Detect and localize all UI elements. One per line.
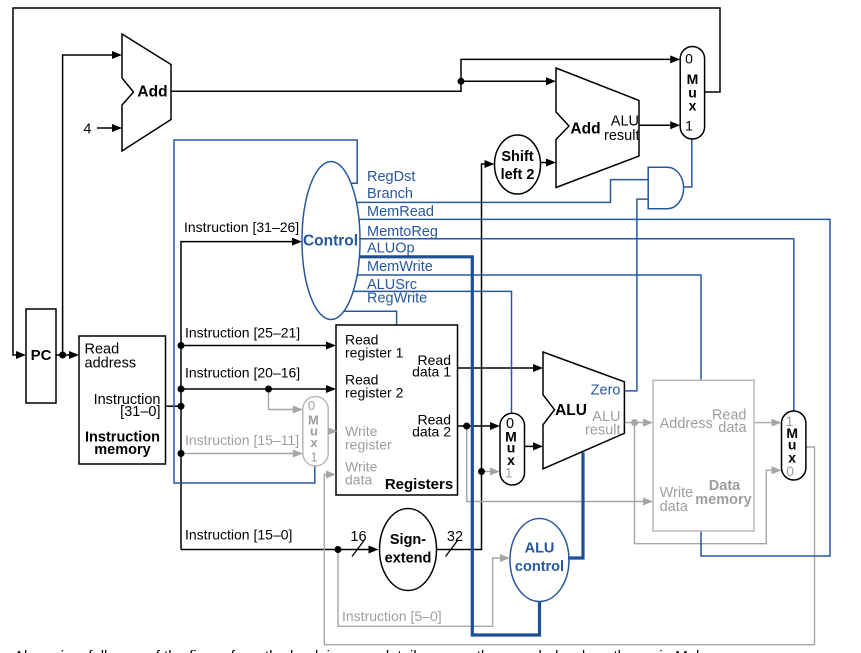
svg-text:Instruction [5–0]: Instruction [5–0] bbox=[342, 608, 442, 624]
svg-text:1: 1 bbox=[786, 413, 794, 429]
svg-text:Branch: Branch bbox=[367, 186, 413, 202]
svg-text:Instruction [20–16]: Instruction [20–16] bbox=[185, 365, 300, 381]
svg-text:16: 16 bbox=[350, 529, 366, 545]
svg-text:ALU: ALU bbox=[555, 402, 587, 419]
svg-text:Add: Add bbox=[570, 121, 600, 138]
svg-text:Registers: Registers bbox=[385, 476, 453, 493]
svg-text:MemRead: MemRead bbox=[367, 204, 434, 220]
svg-text:memory: memory bbox=[695, 492, 751, 508]
svg-text:1: 1 bbox=[310, 449, 317, 464]
svg-text:Instruction [25–21]: Instruction [25–21] bbox=[185, 325, 300, 341]
svg-text:data: data bbox=[345, 472, 372, 488]
svg-text:MemtoReg: MemtoReg bbox=[367, 224, 438, 240]
svg-text:ALUOp: ALUOp bbox=[367, 241, 415, 257]
svg-text:Instruction [31–26]: Instruction [31–26] bbox=[184, 219, 299, 235]
svg-text:register 1: register 1 bbox=[345, 345, 404, 361]
svg-text:0: 0 bbox=[685, 51, 693, 67]
svg-text:data: data bbox=[660, 499, 689, 515]
svg-text:Add: Add bbox=[137, 84, 167, 101]
svg-text:control: control bbox=[515, 559, 564, 575]
svg-text:RegWrite: RegWrite bbox=[367, 291, 427, 307]
svg-text:data: data bbox=[718, 420, 747, 436]
svg-text:Sign-: Sign- bbox=[390, 532, 426, 548]
svg-text:register: register bbox=[345, 437, 392, 453]
svg-text:PC: PC bbox=[31, 347, 52, 364]
svg-text:1: 1 bbox=[685, 118, 693, 134]
svg-text:MemWrite: MemWrite bbox=[367, 259, 433, 275]
svg-text:Shift: Shift bbox=[501, 149, 533, 165]
svg-text:memory: memory bbox=[94, 442, 150, 458]
svg-text:1: 1 bbox=[505, 465, 513, 481]
svg-text:Address: Address bbox=[660, 416, 713, 432]
svg-text:Instruction [15–11]: Instruction [15–11] bbox=[185, 432, 299, 448]
svg-text:x: x bbox=[689, 98, 697, 114]
svg-text:result: result bbox=[585, 423, 620, 439]
svg-text:32: 32 bbox=[447, 529, 463, 545]
svg-text:left 2: left 2 bbox=[501, 167, 535, 183]
svg-text:Instruction [15–0]: Instruction [15–0] bbox=[185, 527, 292, 543]
svg-text:Above is a full copy of the fi: Above is a full copy of the figure from … bbox=[14, 648, 699, 653]
svg-text:[31–0]: [31–0] bbox=[120, 404, 160, 420]
svg-text:data 2: data 2 bbox=[412, 424, 451, 440]
svg-text:Zero: Zero bbox=[591, 383, 621, 399]
svg-text:RegDst: RegDst bbox=[367, 169, 415, 185]
svg-text:register 2: register 2 bbox=[345, 385, 404, 401]
svg-text:Control: Control bbox=[303, 233, 358, 250]
svg-text:result: result bbox=[604, 128, 639, 144]
svg-text:data 1: data 1 bbox=[412, 364, 451, 380]
svg-text:extend: extend bbox=[385, 551, 432, 567]
svg-text:address: address bbox=[85, 356, 137, 372]
svg-text:0: 0 bbox=[786, 463, 794, 479]
svg-text:ALU: ALU bbox=[525, 541, 555, 557]
svg-text:0: 0 bbox=[308, 398, 315, 413]
svg-text:x: x bbox=[310, 435, 318, 450]
svg-text:4: 4 bbox=[83, 122, 91, 138]
